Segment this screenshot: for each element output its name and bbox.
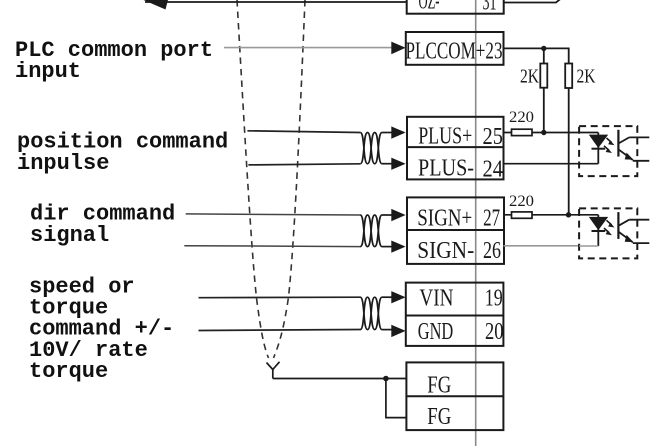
node junction R1/PLUS+: [541, 130, 546, 135]
svg-text:20: 20: [485, 319, 504, 345]
resistor R1 2K: [520, 64, 547, 88]
svg-text:2K: 2K: [577, 66, 596, 88]
wire speed pair lower: [199, 330, 361, 331]
wire twist2 to SIGN- arrow: [382, 246, 393, 248]
resistor R2 2K: [565, 64, 596, 89]
pin box VIN 19 / GND 20: [406, 283, 504, 346]
wire position pair lower: [248, 164, 360, 165]
wire branch to FG2: [386, 379, 407, 418]
wire PLC common: [224, 47, 393, 49]
svg-text:PLUS+: PLUS+: [418, 124, 472, 150]
arrow into PLCCOM: [391, 42, 405, 55]
node junction PLCCOM/R1: [541, 46, 546, 51]
wire into opto1 cathode: [579, 163, 598, 165]
label position command inpulse: [17, 129, 228, 176]
wire PLUS- to opto1: [504, 163, 580, 165]
wire speed pair upper: [199, 296, 361, 299]
label speed or torque command: [29, 274, 174, 384]
pin box SIGN+ 27 / SIGN- 26: [407, 197, 504, 264]
svg-text:input: input: [15, 59, 81, 84]
arrow into GND: [391, 325, 405, 337]
twisted pair symbol 2: [360, 215, 382, 247]
wire shield to FG: [273, 378, 407, 380]
arrow left (top, clipped): [140, 0, 171, 10]
wire top encoder line: [145, 1, 407, 3]
svg-text:PLCCOM+23: PLCCOM+23: [406, 38, 503, 64]
svg-text:SIGN+: SIGN+: [417, 206, 472, 232]
svg-text:GND: GND: [418, 319, 454, 345]
svg-text:FG: FG: [427, 373, 451, 399]
wire into opto2 anode: [579, 214, 598, 216]
resistor 220 (SIGN+): [509, 193, 534, 218]
arrow into SIGN-: [391, 241, 405, 253]
wire dir pair lower: [184, 245, 360, 248]
svg-text:25: 25: [482, 124, 503, 150]
pin box PLCCOM+ 23: [406, 32, 504, 65]
svg-text:220: 220: [509, 109, 534, 126]
label PLC common port input: [15, 38, 213, 84]
wire SIGN- to opto2: [504, 245, 580, 247]
svg-text:31: 31: [483, 0, 497, 16]
pin box FG / FG: [406, 362, 503, 430]
svg-text:24: 24: [482, 157, 503, 183]
svg-text:2K: 2K: [520, 66, 539, 88]
optocoupler U2: [579, 208, 649, 258]
twisted pair symbol 1: [360, 133, 382, 164]
wire resistor R2 bottom to SIGN+: [568, 88, 570, 215]
cable shield dashed line left: [237, 0, 269, 358]
wire twist1 to PLUS+ arrow: [382, 132, 393, 134]
wire resistor R1 bottom to PLUS+: [543, 88, 545, 133]
node junction FG branch: [383, 376, 389, 382]
svg-text:220: 220: [509, 193, 534, 210]
svg-text:signal: signal: [30, 223, 109, 248]
pin box OZ- 31 (clipped at top): [407, 0, 504, 16]
svg-text:VIN: VIN: [419, 286, 453, 312]
svg-text:19: 19: [485, 286, 503, 312]
svg-text:FG: FG: [427, 404, 451, 430]
wire PLCCOM to pull-up resistors: [504, 48, 569, 63]
wire SIGN+ to opto2: [504, 214, 580, 216]
svg-text:SIGN-: SIGN-: [417, 238, 474, 264]
svg-text:OZ-: OZ-: [419, 0, 440, 15]
wire dir pair upper: [186, 214, 361, 215]
svg-text:26: 26: [483, 238, 501, 264]
arrow into PLUS+: [391, 126, 405, 138]
svg-text:inpulse: inpulse: [17, 151, 109, 176]
arrow into VIN: [391, 291, 405, 303]
wire position pair upper: [247, 131, 360, 133]
twisted pair symbol 3: [360, 297, 382, 329]
arrow into PLUS-: [391, 158, 405, 170]
wire twist2 to SIGN+ arrow: [382, 214, 393, 216]
wire twist3 to GND arrow: [382, 329, 393, 331]
wire PLUS+ to opto1: [504, 132, 580, 134]
label dir command signal: [30, 201, 175, 248]
shield drain Y: [267, 362, 280, 379]
wire from pin 31: [504, 0, 561, 3]
svg-text:torque: torque: [29, 359, 108, 384]
resistor 220 (PLUS+): [509, 109, 534, 136]
node junction R2/SIGN+: [566, 212, 571, 217]
arrow into SIGN+: [391, 209, 405, 221]
connector boundary line (grey vertical): [475, 0, 477, 446]
svg-text:27: 27: [483, 206, 500, 232]
wire into opto1 anode: [579, 132, 598, 134]
optocoupler U1: [579, 126, 649, 176]
svg-text:PLUS-: PLUS-: [418, 156, 474, 182]
wire twist3 to VIN arrow: [382, 296, 393, 298]
wire into opto2 cathode: [579, 245, 598, 247]
cable shield dashed line right: [274, 0, 306, 358]
pin box PLUS+ 25 / PLUS- 24: [407, 117, 504, 183]
wire twist1 to PLUS- arrow: [382, 163, 393, 165]
wire resistor R1 top: [543, 48, 545, 63]
